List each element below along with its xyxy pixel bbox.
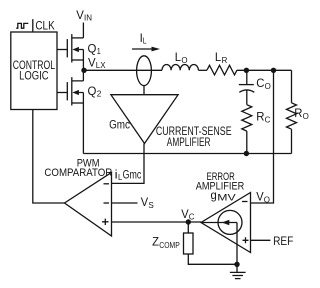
current source circle inside error amp — [218, 210, 242, 234]
label gMV — [211, 190, 237, 204]
svg-text:LOGIC: LOGIC — [19, 70, 48, 82]
svg-text:CLK: CLK — [35, 18, 54, 32]
svg-text:R: R — [256, 111, 264, 123]
label PWM COMPARATOR — [44, 158, 112, 179]
svg-text:L: L — [143, 36, 147, 46]
label VS — [141, 197, 154, 210]
svg-text:R: R — [294, 108, 302, 120]
svg-text:Q: Q — [88, 86, 97, 98]
op-amp Gmc current sense amplifier — [111, 95, 178, 144]
wire LO to LR — [198, 69, 207, 71]
svg-text:V: V — [181, 209, 189, 221]
svg-text:C: C — [189, 211, 195, 221]
node rail junction dot — [244, 151, 249, 156]
label ERROR AMPLIFIER — [196, 171, 244, 193]
transistor Q1 — [57, 34, 83, 62]
node output junction dot 1 — [244, 68, 249, 73]
pin minus top of comparator — [104, 183, 110, 185]
label ZCOMP — [152, 237, 180, 250]
svg-text:COMP: COMP — [159, 240, 180, 250]
svg-text:Gmc: Gmc — [109, 119, 130, 131]
node VIN label — [76, 10, 92, 23]
comparator PWM — [65, 173, 112, 237]
control logic block U1 — [11, 32, 57, 110]
svg-text:MV: MV — [217, 193, 236, 204]
svg-text:1: 1 — [97, 46, 101, 56]
label CURRENT-SENSE AMPLIFIER — [156, 126, 232, 149]
svg-text:V: V — [76, 10, 84, 22]
wire comparator output to control logic — [33, 110, 65, 204]
wire Q1 source to VLX node — [82, 60, 84, 70]
label iL Gmc — [115, 169, 142, 182]
node VLX junction dot — [81, 68, 86, 73]
svg-text:AMPLIFIER: AMPLIFIER — [167, 137, 211, 149]
svg-text:C: C — [256, 78, 264, 90]
svg-text:Gmc: Gmc — [123, 169, 142, 181]
pin minus of error amp — [242, 201, 248, 203]
label CO — [256, 78, 271, 91]
svg-text:COMPARATOR: COMPARATOR — [44, 167, 112, 179]
transistor Q2 — [57, 73, 83, 106]
wire VO feedback — [251, 73, 274, 203]
label Q1 — [88, 44, 102, 57]
clock waveform symbol — [16, 23, 28, 28]
wire VIN to Q1 drain — [82, 23, 84, 38]
pin plus of comparator — [102, 219, 108, 225]
pin minus middle of comparator — [104, 202, 110, 204]
svg-text:2: 2 — [97, 89, 102, 99]
pin plus of error amp — [243, 237, 249, 243]
svg-text:Q: Q — [88, 44, 97, 56]
wire CLK input — [32, 19, 34, 32]
label VO — [256, 191, 270, 204]
wire LR to output node — [237, 69, 292, 71]
svg-text:LX: LX — [96, 60, 106, 70]
svg-text:O: O — [303, 111, 310, 121]
op-amp error amplifier gMV — [201, 193, 251, 253]
resistor RC — [242, 105, 252, 131]
svg-text:V: V — [256, 191, 264, 203]
wire probe to Gmc input — [143, 86, 145, 95]
svg-text:R: R — [222, 55, 228, 65]
svg-text:V: V — [88, 57, 96, 69]
ground — [230, 264, 246, 278]
label Q2 — [88, 86, 102, 99]
wire Gmc output down to PWM comparator — [112, 144, 145, 184]
node output junction dot 2 — [271, 68, 276, 73]
wire RC to rail — [246, 131, 248, 153]
inductor LO — [162, 65, 198, 71]
wire return rail — [83, 153, 291, 155]
wire VLX output node to LO — [87, 69, 163, 71]
capacitor CO — [239, 70, 255, 104]
label IL — [140, 33, 147, 46]
resistor RO — [287, 70, 297, 153]
label RC — [256, 111, 270, 124]
svg-text:REF: REF — [273, 236, 293, 248]
wire VS input — [112, 202, 138, 204]
svg-text:C: C — [265, 114, 271, 124]
wire Q2 source down to return rail — [82, 103, 84, 154]
arrow IL current direction — [132, 47, 160, 52]
node VC junction dot — [186, 219, 191, 224]
svg-text:Z: Z — [152, 237, 159, 249]
wire REF input — [251, 239, 271, 241]
svg-text:V: V — [141, 197, 149, 209]
label RO — [294, 108, 309, 121]
label LR — [215, 52, 227, 65]
svg-text:g: g — [211, 190, 217, 202]
current sense probe ellipse — [137, 56, 152, 86]
arrow inside current source — [202, 220, 237, 264]
svg-text:O: O — [265, 81, 272, 91]
svg-text:O: O — [181, 55, 188, 65]
svg-text:IN: IN — [84, 12, 92, 22]
impedance ZCOMP — [184, 224, 238, 264]
label VLX — [88, 57, 106, 70]
node ground junction dot — [234, 262, 239, 267]
svg-text:O: O — [264, 194, 271, 204]
wire comparator plus input to VC — [112, 221, 202, 223]
svg-text:AMPLIFIER: AMPLIFIER — [196, 181, 244, 193]
resistor LR — [207, 65, 237, 75]
label VC — [181, 209, 194, 222]
svg-text:S: S — [148, 200, 154, 210]
label LO — [175, 52, 188, 65]
